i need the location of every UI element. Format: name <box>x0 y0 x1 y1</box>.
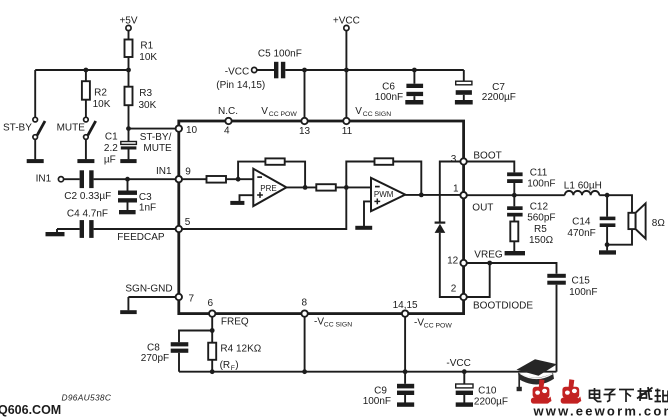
wire -VCC to C5 <box>257 69 274 71</box>
wire R1 to R3 <box>128 57 130 87</box>
svg-text:100nF: 100nF <box>363 396 391 407</box>
svg-text:C2 0.33µF: C2 0.33µF <box>64 191 111 202</box>
svg-text:100nF: 100nF <box>375 92 403 103</box>
svg-text:2: 2 <box>451 284 457 295</box>
label ST-BY/MUTE node <box>140 132 172 154</box>
watermark 虫虫 red characters <box>531 379 581 403</box>
junction R1 bottom <box>126 68 131 73</box>
svg-text:C8: C8 <box>147 343 160 354</box>
junction pin 13 <box>302 68 307 73</box>
svg-text:VREG: VREG <box>474 249 503 260</box>
wire resistor to PWM - input <box>336 186 371 188</box>
junction PWM input node <box>344 185 349 190</box>
svg-text:C5 100nF: C5 100nF <box>258 49 302 60</box>
capacitor C5 <box>258 49 302 79</box>
wire pin 1 OUT to L1 <box>464 194 565 196</box>
svg-text:C3: C3 <box>139 192 152 203</box>
resistor PWM feedback <box>375 158 394 165</box>
wire C4 to pin 5 FEEDCAP <box>94 228 177 230</box>
wire internal BOOT line <box>440 162 464 222</box>
junction ST-BY/MUTE node <box>126 126 131 131</box>
svg-text:L1 60µH: L1 60µH <box>564 180 602 191</box>
pin 10 <box>176 125 198 136</box>
svg-text:-V: -V <box>314 316 324 327</box>
ground C14 <box>599 250 616 254</box>
pin 1 OUT <box>453 184 467 199</box>
wire R3 to C1 <box>128 105 130 141</box>
pin 6 FREQ <box>208 298 249 328</box>
wire diode to pin 2 <box>440 233 464 297</box>
svg-text:µF: µF <box>104 155 116 166</box>
wire FREQ pin 6 down <box>211 314 213 331</box>
wire rail to C7 <box>463 70 465 81</box>
svg-text:Q606.COM: Q606.COM <box>0 403 61 417</box>
svg-text:IN1: IN1 <box>36 174 52 185</box>
ground SGN-GND <box>120 310 137 314</box>
resistor PRE feedback <box>265 158 284 164</box>
watermark 虫虫 white eyes <box>535 389 577 395</box>
wire ground to C4 <box>57 228 80 230</box>
svg-text:R2: R2 <box>94 88 107 99</box>
diode BOOTDIODE internal <box>435 222 446 233</box>
svg-text:10K: 10K <box>139 52 157 63</box>
svg-text:PRE: PRE <box>260 184 276 193</box>
junction C11/C12 node <box>512 193 517 198</box>
junction C3 top <box>125 177 130 182</box>
junction C14 top <box>605 193 610 198</box>
pin 11 VCC SIGN <box>342 106 391 137</box>
svg-text:2200µF: 2200µF <box>482 92 516 103</box>
ground C3 <box>119 210 136 214</box>
svg-text:14,15: 14,15 <box>393 300 418 311</box>
svg-text:2.2: 2.2 <box>104 143 118 154</box>
junction C9 top <box>403 369 408 374</box>
resistor R3 <box>125 87 157 111</box>
svg-text:8: 8 <box>302 298 308 309</box>
svg-text:100nF: 100nF <box>569 287 597 298</box>
wire SGN-GND to pin 7 <box>128 297 177 310</box>
svg-text:270pF: 270pF <box>141 353 169 364</box>
wire R2 top <box>85 70 87 81</box>
junction R2 top <box>84 68 89 73</box>
resistor R2 <box>82 81 111 110</box>
svg-text:IN1: IN1 <box>156 166 172 177</box>
wire PRE output <box>286 186 316 188</box>
junction R4 bottom <box>210 369 215 374</box>
svg-text:(Pin 14,15): (Pin 14,15) <box>216 80 265 91</box>
resistor input PRE <box>207 176 227 183</box>
wire pin 8 down <box>304 314 306 372</box>
ground PRE + input <box>230 195 253 205</box>
svg-text:-VCC: -VCC <box>446 358 470 369</box>
ground PWM + input <box>355 201 372 229</box>
svg-text:www.eeworm.com: www.eeworm.com <box>533 404 668 418</box>
svg-text:V: V <box>261 106 268 117</box>
pin 14,15 -VCC POW <box>393 300 453 330</box>
capacitor C14 <box>567 195 615 250</box>
svg-text:PWM: PWM <box>374 190 394 199</box>
resistor PRE to PWM <box>316 184 336 190</box>
svg-text:30K: 30K <box>139 100 157 111</box>
svg-text:8Ω: 8Ω <box>652 218 666 229</box>
svg-text:5: 5 <box>185 217 191 228</box>
wire PWM output to pin 1 <box>405 194 463 196</box>
junction C6 top <box>412 68 417 73</box>
svg-text:C4 4.7nF: C4 4.7nF <box>67 208 108 219</box>
capacitor C12 <box>507 195 555 223</box>
inductor L1 <box>564 180 602 195</box>
svg-text:ST-BY: ST-BY <box>3 123 32 134</box>
resistor R5 <box>510 222 553 252</box>
ground C10 <box>456 402 473 406</box>
ground C9 <box>397 402 414 406</box>
svg-text:470nF: 470nF <box>567 228 595 239</box>
op-amp PWM <box>371 178 405 211</box>
pin 12 VREG <box>447 255 467 266</box>
svg-text:C9: C9 <box>374 386 387 397</box>
pin 4 N.C. <box>218 106 238 137</box>
junction PRE feedback <box>236 177 241 182</box>
ground R5 <box>505 251 525 255</box>
svg-text:9: 9 <box>185 167 191 178</box>
speaker LS1 <box>607 203 665 244</box>
svg-text:MUTE: MUTE <box>57 123 86 134</box>
capacitor C6 <box>375 70 423 103</box>
wire +5V to R1 <box>128 31 130 40</box>
pin 8 -VCC SIGN <box>301 298 352 329</box>
ground C6 <box>405 100 423 105</box>
svg-text:): ) <box>235 360 238 371</box>
watermark 电子下载站 characters <box>590 387 668 402</box>
svg-text:R4 12KΩ: R4 12KΩ <box>220 344 261 355</box>
wire L1 to speaker <box>599 195 632 213</box>
wire PRE feedback to output <box>285 162 305 188</box>
wire -VCC bottom rail <box>179 371 557 373</box>
svg-text:D96AU538C: D96AU538C <box>62 393 112 403</box>
capacitor C10 <box>456 372 508 408</box>
capacitor C8 <box>141 342 189 372</box>
pin 7 <box>176 294 195 305</box>
pin 13 VCC POW <box>261 106 310 137</box>
junction PRE output <box>303 185 308 190</box>
svg-text:11: 11 <box>342 126 353 137</box>
svg-text:100nF: 100nF <box>527 179 555 190</box>
pin 3 BOOT <box>451 154 467 165</box>
svg-text:CC POW: CC POW <box>424 323 453 330</box>
svg-text:10K: 10K <box>93 99 111 110</box>
svg-text:BOOTDIODE: BOOTDIODE <box>473 301 533 312</box>
ground C1 <box>120 159 136 163</box>
svg-text:4: 4 <box>224 126 230 137</box>
switch ST-BY <box>33 117 45 159</box>
wire PWM feedback loop <box>346 162 374 188</box>
wire IN1 to C2 <box>64 178 80 180</box>
svg-text:R3: R3 <box>139 88 152 99</box>
svg-text:-VCC: -VCC <box>225 67 249 78</box>
junction speaker return <box>605 242 610 247</box>
svg-text:1nF: 1nF <box>139 203 156 214</box>
svg-text:-V: -V <box>414 318 424 329</box>
svg-text:3: 3 <box>451 154 457 165</box>
svg-text:12: 12 <box>447 255 459 266</box>
svg-text:ST-BY/: ST-BY/ <box>140 132 172 143</box>
node -VCC terminal <box>216 67 265 92</box>
svg-text:2200µF: 2200µF <box>474 397 508 408</box>
capacitor C4 <box>67 208 108 238</box>
svg-text:(R: (R <box>220 360 231 371</box>
ground C7 <box>455 100 473 105</box>
svg-text:V: V <box>355 106 362 117</box>
svg-text:MUTE: MUTE <box>143 143 172 154</box>
resistor R1 <box>125 40 158 64</box>
node +VCC terminal <box>333 16 360 31</box>
pin 5 <box>176 217 191 232</box>
svg-text:C1: C1 <box>105 132 118 143</box>
ground MUTE <box>77 159 94 163</box>
capacitor C11 <box>507 168 555 196</box>
svg-text:6: 6 <box>208 298 214 309</box>
svg-text:13: 13 <box>299 126 311 137</box>
switch MUTE <box>84 117 96 159</box>
capacitor C15 <box>547 274 597 372</box>
svg-text:OUT: OUT <box>472 203 493 214</box>
wire VREG node to pin 2 <box>464 263 490 297</box>
wire pin 3 BOOT to C11 <box>464 162 515 173</box>
junction C10 top <box>462 369 467 374</box>
resistor R4 <box>208 331 262 373</box>
ground C4 <box>46 229 65 236</box>
wire pin 12 VREG to C15 <box>464 263 557 274</box>
watermark graduation cap logo <box>517 359 558 391</box>
svg-text:BOOT: BOOT <box>473 151 501 162</box>
wire FREQ node to C8 <box>179 331 212 343</box>
op-amp U1 IC body TDA <box>179 121 464 314</box>
wire PRE feedback loop <box>238 162 265 180</box>
svg-text:10: 10 <box>186 125 198 136</box>
node IN1 terminal <box>36 174 64 185</box>
junction +VCC rail <box>344 68 349 73</box>
svg-text:C14: C14 <box>572 217 591 228</box>
wire +VCC to pin 11 <box>345 31 347 121</box>
capacitor C3 <box>118 179 156 213</box>
wire rail to switches <box>35 69 128 71</box>
wire resistor to PRE - input <box>226 178 253 180</box>
pin 2 BOOTDIODE <box>451 284 467 301</box>
capacitor C7 <box>456 81 516 103</box>
svg-text:560pF: 560pF <box>527 213 555 224</box>
capacitor C2 <box>64 170 111 202</box>
junction VREG node <box>487 261 492 266</box>
svg-text:R5: R5 <box>534 224 547 235</box>
svg-text:CC POW: CC POW <box>269 111 298 118</box>
wire pin 14,15 down <box>404 314 406 372</box>
svg-text:N.C.: N.C. <box>218 106 238 117</box>
pin 9 <box>176 167 192 183</box>
wire PWM feedback to output <box>393 162 421 195</box>
svg-text:R1: R1 <box>140 41 153 52</box>
wire node to pin 10 <box>129 128 178 130</box>
svg-text:1: 1 <box>453 184 459 195</box>
capacitor C1 <box>104 132 137 166</box>
op-amp PRE <box>253 169 286 206</box>
wire pin 9 to input resistor <box>179 178 207 180</box>
svg-text:CC SIGN: CC SIGN <box>363 111 391 118</box>
junction pin 8 rail <box>302 369 307 374</box>
ground ST-BY <box>27 159 44 163</box>
wire R2 to MUTE switch <box>85 100 87 118</box>
svg-text:150Ω: 150Ω <box>529 235 554 246</box>
junction FREQ node <box>210 328 215 333</box>
svg-text:7: 7 <box>189 294 195 305</box>
svg-text:C11: C11 <box>530 168 548 179</box>
svg-text:FEEDCAP: FEEDCAP <box>117 232 165 243</box>
svg-text:FREQ: FREQ <box>221 317 249 328</box>
junction PWM output <box>419 193 424 198</box>
wire +VCC rail <box>285 69 464 71</box>
capacitor C9 <box>363 372 415 407</box>
wire C2 to pin 9 <box>94 178 177 180</box>
svg-text:C15: C15 <box>572 276 591 287</box>
node +5V terminal <box>119 16 137 31</box>
wire rail to pin 13 <box>304 70 306 121</box>
svg-text:C10: C10 <box>478 386 497 397</box>
svg-text:C12: C12 <box>530 202 549 213</box>
svg-text:CC SIGN: CC SIGN <box>324 322 352 329</box>
wire FEEDCAP pin 5 to PWM input node <box>179 187 346 229</box>
wire rail down to ST-BY switch <box>34 70 36 117</box>
svg-text:SGN-GND: SGN-GND <box>125 284 172 295</box>
